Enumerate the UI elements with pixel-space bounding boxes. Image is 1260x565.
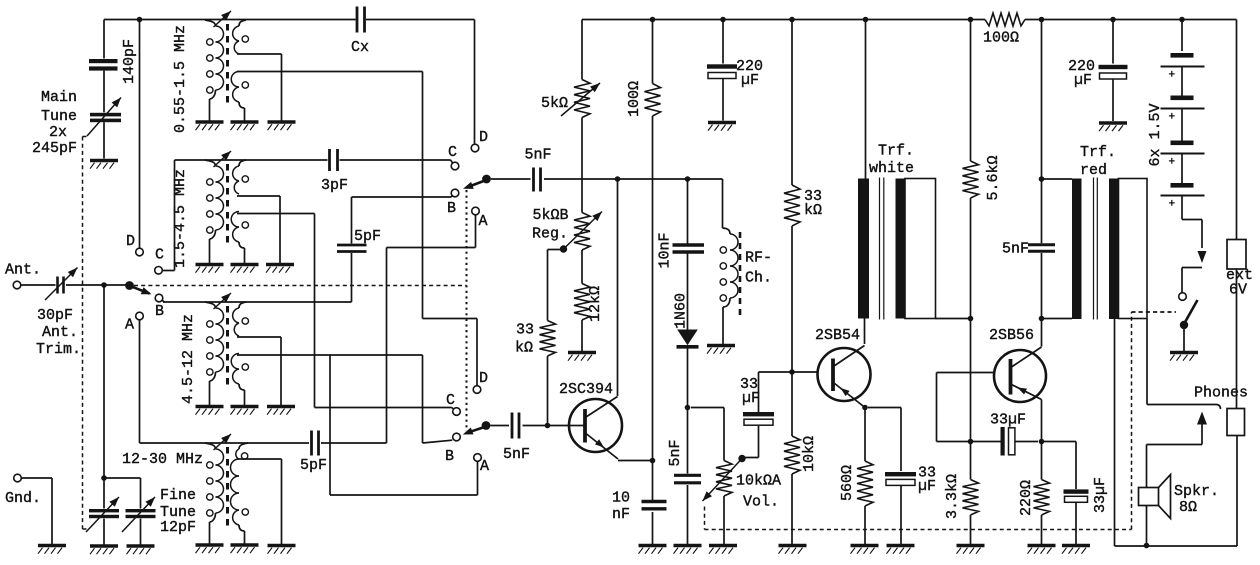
- svg-text:33: 33: [516, 322, 534, 339]
- svg-text:4.5-12 MHz: 4.5-12 MHz: [180, 314, 197, 404]
- svg-text:3pF: 3pF: [321, 177, 348, 194]
- svg-text:RF-: RF-: [745, 250, 772, 267]
- svg-text:6x 1.5V: 6x 1.5V: [1147, 103, 1164, 166]
- svg-text:B: B: [155, 303, 164, 320]
- svg-text:Vol.: Vol.: [743, 494, 779, 511]
- svg-text:10: 10: [612, 490, 630, 507]
- svg-text:5nF: 5nF: [525, 147, 552, 164]
- svg-text:+: +: [1169, 157, 1176, 169]
- svg-text:Gnd.: Gnd.: [5, 490, 41, 507]
- svg-text:B: B: [445, 448, 454, 465]
- svg-text:5pF: 5pF: [300, 457, 327, 474]
- svg-text:B: B: [447, 200, 456, 217]
- svg-text:2x: 2x: [49, 124, 67, 141]
- svg-text:Trim.: Trim.: [36, 341, 81, 358]
- svg-text:+: +: [1169, 199, 1176, 211]
- svg-text:Phones: Phones: [1194, 385, 1248, 402]
- svg-text:A: A: [479, 213, 488, 230]
- svg-text:12kΩ: 12kΩ: [587, 286, 604, 322]
- svg-text:Tune: Tune: [41, 108, 77, 125]
- svg-text:245pF: 245pF: [32, 140, 77, 157]
- svg-text:5nF: 5nF: [667, 439, 684, 466]
- svg-text:100Ω: 100Ω: [626, 81, 643, 117]
- svg-text:D: D: [479, 370, 488, 387]
- svg-text:+: +: [1169, 70, 1176, 82]
- svg-text:nF: nF: [612, 506, 630, 523]
- svg-text:Cx: Cx: [351, 39, 369, 56]
- svg-text:µF: µF: [918, 478, 936, 495]
- svg-text:10nF: 10nF: [657, 232, 674, 268]
- svg-text:Trf.: Trf.: [1080, 144, 1116, 161]
- svg-text:8Ω: 8Ω: [1179, 499, 1197, 516]
- svg-text:µF: µF: [1074, 72, 1092, 89]
- svg-text:C: C: [448, 144, 457, 161]
- svg-text:100Ω: 100Ω: [983, 30, 1019, 47]
- svg-text:D: D: [126, 233, 135, 250]
- svg-text:5pF: 5pF: [354, 228, 381, 245]
- svg-text:560Ω: 560Ω: [839, 465, 856, 501]
- svg-text:µF: µF: [741, 72, 759, 89]
- svg-text:5kΩ: 5kΩ: [541, 95, 568, 112]
- svg-text:5nF: 5nF: [1002, 241, 1029, 258]
- svg-text:3.3kΩ: 3.3kΩ: [944, 474, 961, 519]
- svg-text:220Ω: 220Ω: [1018, 480, 1035, 516]
- svg-text:5kΩB: 5kΩB: [533, 207, 569, 224]
- svg-text:Trf.: Trf.: [878, 143, 914, 160]
- svg-text:140pF: 140pF: [121, 39, 138, 84]
- svg-text:Fine: Fine: [160, 487, 196, 504]
- svg-text:A: A: [480, 458, 489, 475]
- svg-text:Ch.: Ch.: [745, 270, 772, 287]
- svg-text:kΩ: kΩ: [804, 202, 822, 219]
- svg-text:1N60: 1N60: [673, 293, 690, 329]
- svg-text:6V: 6V: [1229, 282, 1247, 299]
- svg-text:10kΩ: 10kΩ: [801, 436, 818, 472]
- svg-text:Main: Main: [41, 89, 77, 106]
- svg-text:Ant.: Ant.: [42, 324, 78, 341]
- svg-text:+: +: [1169, 112, 1176, 124]
- svg-text:C: C: [155, 247, 164, 264]
- svg-text:D: D: [479, 129, 488, 146]
- svg-text:Reg.: Reg.: [532, 226, 568, 243]
- svg-text:Ant.: Ant.: [5, 262, 41, 279]
- svg-text:33µF: 33µF: [990, 412, 1026, 429]
- svg-text:2SC394: 2SC394: [559, 381, 613, 398]
- svg-text:12pF: 12pF: [160, 519, 196, 536]
- svg-text:white: white: [869, 160, 914, 177]
- svg-text:A: A: [125, 317, 134, 334]
- svg-text:33µF: 33µF: [1092, 477, 1109, 513]
- svg-text:5nF: 5nF: [503, 446, 530, 463]
- svg-text:µF: µF: [742, 390, 760, 407]
- svg-text:30pF: 30pF: [37, 307, 73, 324]
- svg-text:5.6kΩ: 5.6kΩ: [985, 155, 1002, 200]
- svg-text:Spkr.: Spkr.: [1174, 483, 1219, 500]
- svg-text:2SB56: 2SB56: [989, 327, 1034, 344]
- svg-text:kΩ: kΩ: [515, 340, 533, 357]
- svg-text:red: red: [1080, 162, 1107, 179]
- svg-text:12-30 MHz: 12-30 MHz: [122, 451, 203, 468]
- svg-text:2SB54: 2SB54: [815, 327, 860, 344]
- svg-text:10kΩA: 10kΩA: [736, 473, 781, 490]
- svg-text:C: C: [446, 392, 455, 409]
- svg-text:0.55-1.5 MHz: 0.55-1.5 MHz: [172, 25, 189, 133]
